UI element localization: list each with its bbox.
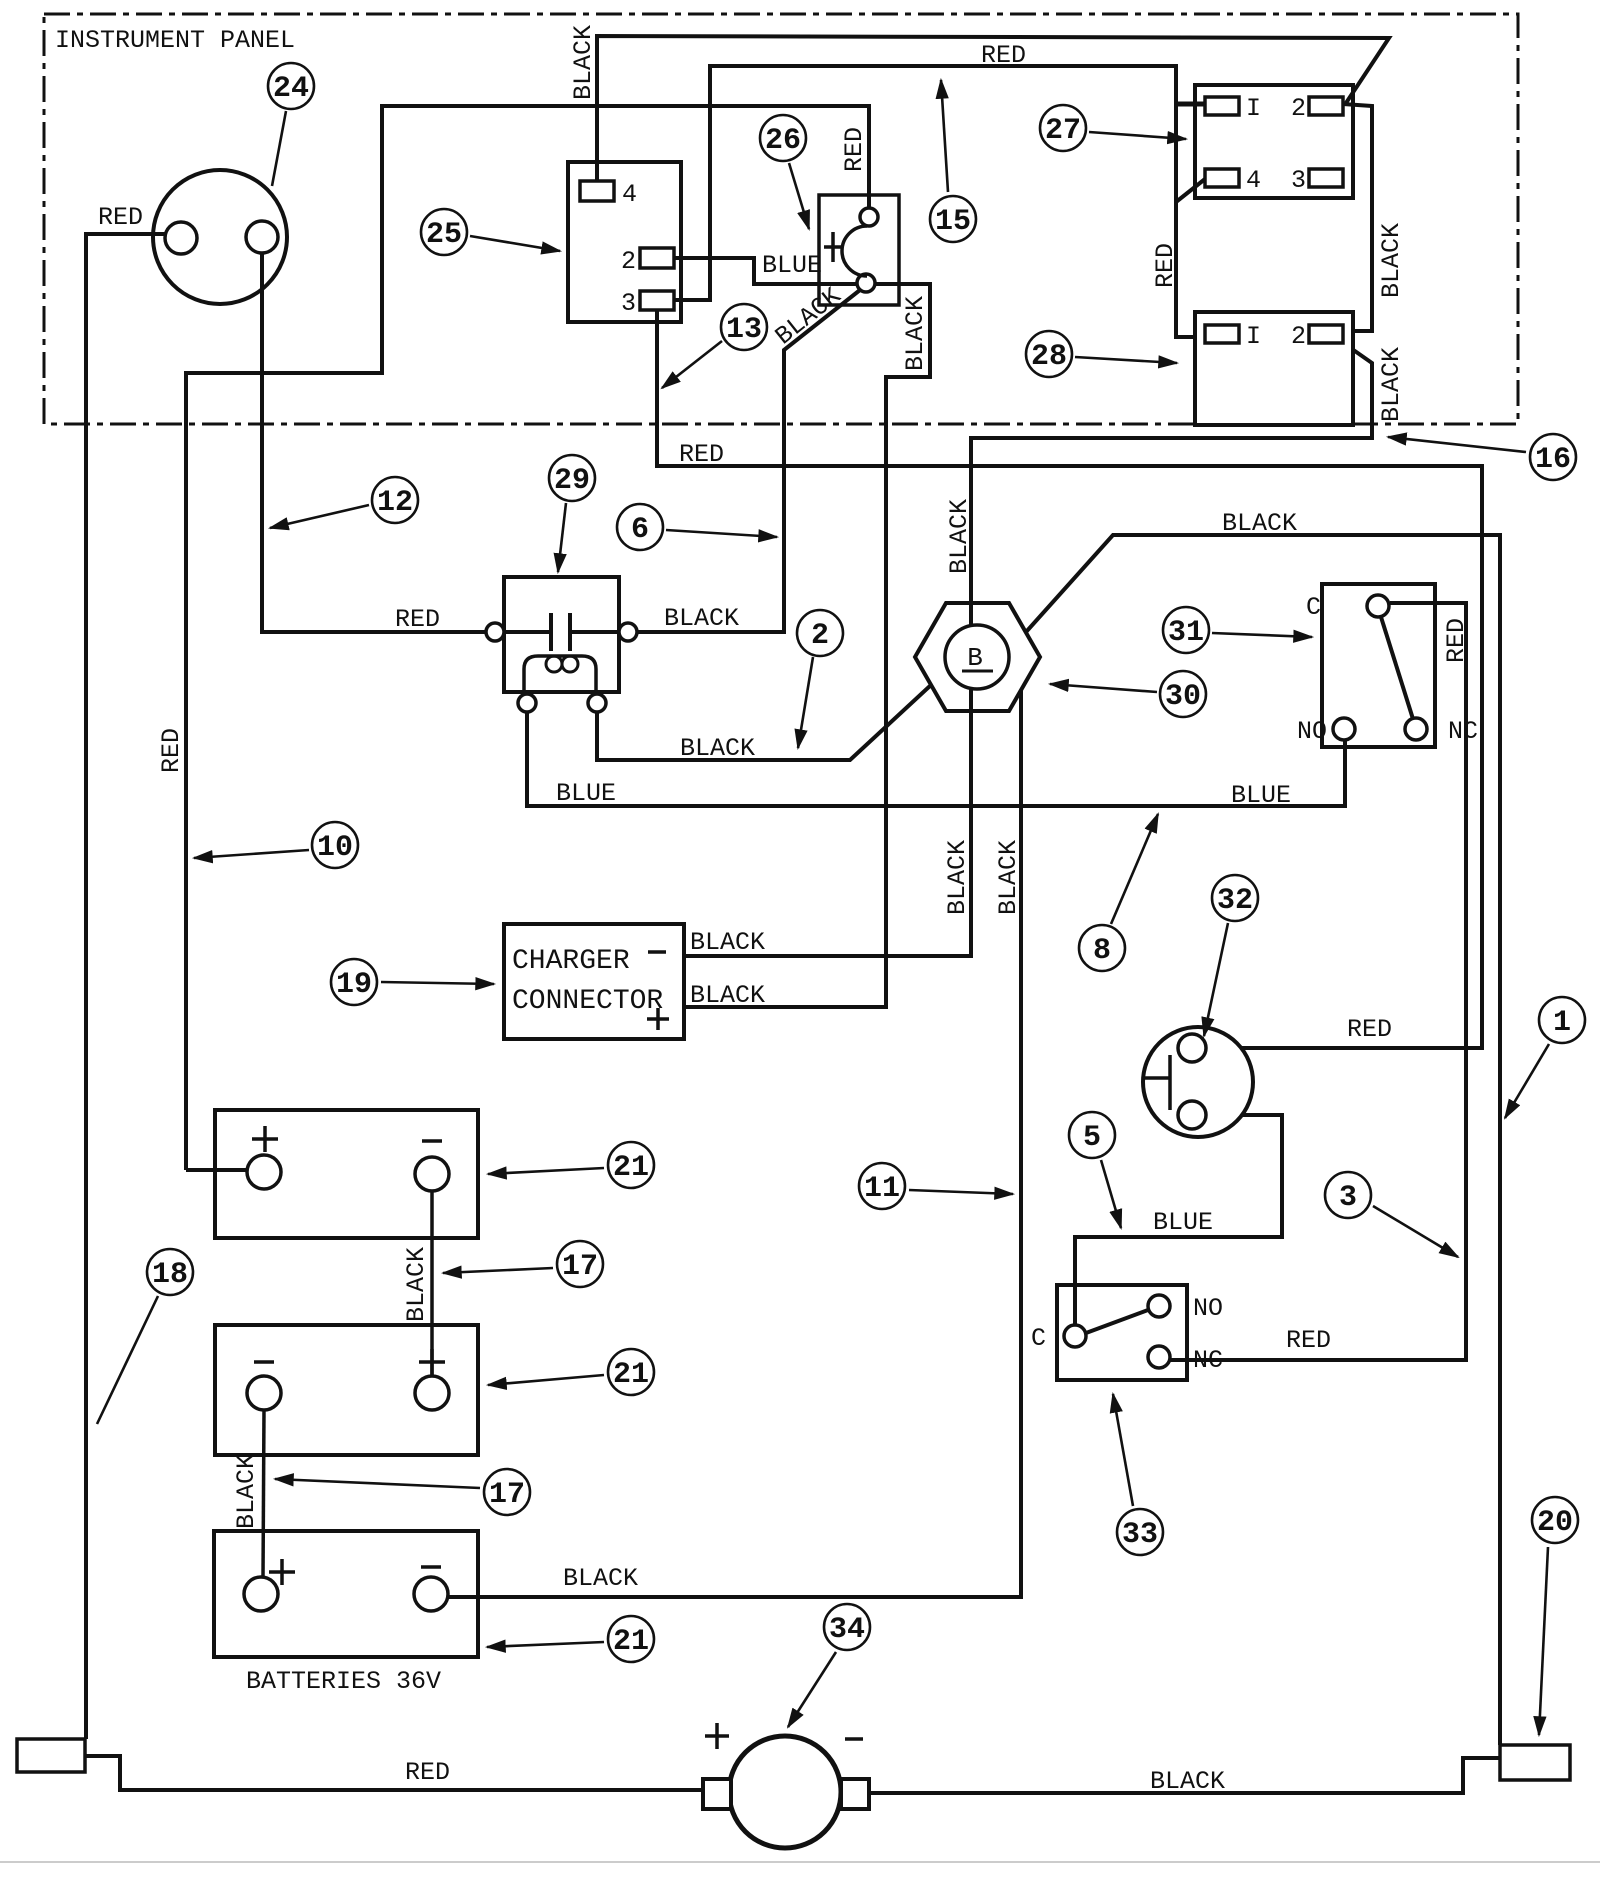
svg-text:29: 29 <box>554 464 590 498</box>
svg-text:B: B <box>967 643 983 673</box>
svg-text:CHARGER: CHARGER <box>512 946 630 977</box>
svg-text:20: 20 <box>1537 1506 1573 1540</box>
svg-text:15: 15 <box>935 205 971 239</box>
svg-text:11: 11 <box>864 1172 900 1206</box>
svg-text:BLUE: BLUE <box>762 251 822 280</box>
svg-text:RED: RED <box>1286 1326 1331 1355</box>
svg-text:BLACK: BLACK <box>1377 223 1406 298</box>
svg-text:RED: RED <box>405 1758 450 1787</box>
svg-text:27: 27 <box>1045 114 1081 148</box>
svg-text:21: 21 <box>613 1625 649 1659</box>
svg-text:BLACK: BLACK <box>232 1454 261 1529</box>
svg-text:RED: RED <box>1442 618 1471 663</box>
svg-text:31: 31 <box>1168 616 1204 650</box>
svg-text:3: 3 <box>1339 1181 1357 1215</box>
svg-text:4: 4 <box>622 180 637 209</box>
svg-text:16: 16 <box>1535 443 1571 477</box>
svg-text:BLUE: BLUE <box>556 779 616 808</box>
svg-text:28: 28 <box>1031 340 1067 374</box>
svg-text:BLUE: BLUE <box>1231 781 1291 810</box>
svg-text:BLACK: BLACK <box>1377 347 1406 422</box>
svg-text:BLACK: BLACK <box>569 25 598 100</box>
svg-text:BLACK: BLACK <box>945 499 974 574</box>
svg-text:BLACK: BLACK <box>402 1247 431 1322</box>
svg-text:2: 2 <box>811 619 829 653</box>
svg-text:NO: NO <box>1193 1294 1223 1323</box>
svg-text:33: 33 <box>1122 1518 1158 1552</box>
svg-text:13: 13 <box>726 313 762 347</box>
svg-text:12: 12 <box>377 486 413 520</box>
svg-text:C: C <box>1031 1324 1046 1353</box>
svg-text:BLACK: BLACK <box>1222 509 1297 538</box>
svg-text:BATTERIES 36V: BATTERIES 36V <box>246 1667 441 1696</box>
svg-text:3: 3 <box>1291 166 1306 195</box>
svg-text:4: 4 <box>1246 166 1261 195</box>
svg-text:6: 6 <box>631 513 649 547</box>
svg-text:21: 21 <box>613 1358 649 1392</box>
svg-text:NO: NO <box>1297 717 1327 746</box>
svg-text:2: 2 <box>1291 94 1306 123</box>
svg-text:BLACK: BLACK <box>943 840 972 915</box>
svg-text:RED: RED <box>395 605 440 634</box>
svg-text:BLACK: BLACK <box>901 296 930 371</box>
svg-text:3: 3 <box>621 289 636 318</box>
svg-text:21: 21 <box>613 1151 649 1185</box>
svg-text:5: 5 <box>1083 1121 1101 1155</box>
svg-text:2: 2 <box>621 247 636 276</box>
svg-text:RED: RED <box>98 203 143 232</box>
svg-text:32: 32 <box>1217 884 1253 918</box>
svg-text:BLACK: BLACK <box>994 840 1023 915</box>
svg-text:RED: RED <box>679 440 724 469</box>
svg-text:BLACK: BLACK <box>690 928 765 957</box>
svg-text:30: 30 <box>1165 680 1201 714</box>
svg-text:BLACK: BLACK <box>664 604 739 633</box>
svg-text:RED: RED <box>1151 243 1180 288</box>
svg-text:RED: RED <box>157 728 186 773</box>
svg-text:INSTRUMENT PANEL: INSTRUMENT PANEL <box>55 26 295 55</box>
svg-text:NC: NC <box>1448 717 1478 746</box>
svg-text:18: 18 <box>152 1258 188 1292</box>
svg-text:24: 24 <box>273 72 309 106</box>
svg-text:RED: RED <box>840 127 869 172</box>
svg-text:1: 1 <box>1553 1006 1571 1040</box>
svg-text:26: 26 <box>765 124 801 158</box>
svg-text:I: I <box>1246 94 1261 123</box>
svg-text:BLACK: BLACK <box>690 981 765 1010</box>
svg-text:NC: NC <box>1193 1346 1223 1375</box>
svg-text:RED: RED <box>1347 1015 1392 1044</box>
svg-text:BLUE: BLUE <box>1153 1208 1213 1237</box>
svg-text:BLACK: BLACK <box>680 734 755 763</box>
svg-text:I: I <box>1246 322 1261 351</box>
svg-text:BLACK: BLACK <box>563 1564 638 1593</box>
svg-text:25: 25 <box>426 218 462 252</box>
svg-text:2: 2 <box>1291 322 1306 351</box>
svg-text:17: 17 <box>562 1250 598 1284</box>
svg-text:C: C <box>1306 593 1321 622</box>
svg-text:CONNECTOR: CONNECTOR <box>512 986 663 1017</box>
svg-text:17: 17 <box>489 1478 525 1512</box>
svg-text:19: 19 <box>336 968 372 1002</box>
svg-text:34: 34 <box>829 1613 865 1647</box>
svg-text:BLACK: BLACK <box>1150 1767 1225 1796</box>
svg-text:8: 8 <box>1093 934 1111 968</box>
svg-text:RED: RED <box>981 41 1026 70</box>
svg-text:10: 10 <box>317 831 353 865</box>
